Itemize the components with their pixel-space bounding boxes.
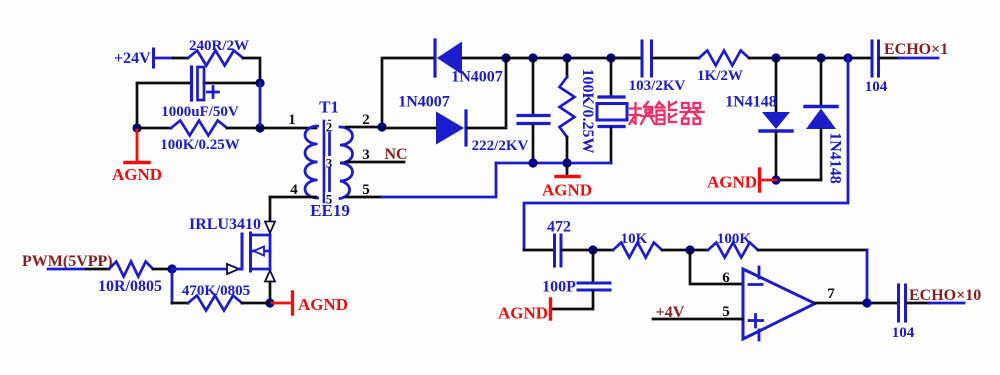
junction dot output bbox=[862, 298, 871, 307]
svg-text:7: 7 bbox=[827, 286, 835, 302]
capacitor 472 plates bbox=[553, 235, 556, 266]
wire drain up to pin4 bbox=[269, 197, 272, 221]
svg-text:AGND: AGND bbox=[542, 181, 592, 200]
svg-text:472: 472 bbox=[547, 219, 571, 236]
wire R1 right to corner bbox=[243, 58, 260, 83]
capacitor 103/2KV bbox=[641, 41, 644, 76]
capacitor 100P stub bbox=[592, 250, 595, 281]
svg-text:AGND: AGND bbox=[707, 173, 757, 192]
ground AGND mosfet bar bbox=[291, 292, 294, 314]
resistor 100K feedback bbox=[708, 243, 758, 258]
wire 100P to ground bbox=[552, 291, 593, 309]
SEC1 bbox=[270, 40, 511, 220]
wire 104 to port black bbox=[907, 302, 929, 305]
svg-text:6: 6 bbox=[722, 270, 730, 286]
capacitor 104 (echo10) plates bbox=[897, 285, 900, 321]
svg-text:1K/2W: 1K/2W bbox=[697, 68, 743, 84]
ground AGND 100P bar bbox=[549, 299, 552, 319]
diode D3 1N4148 (pointing down) bbox=[762, 112, 790, 129]
junction dot diode rail bbox=[771, 175, 780, 184]
junction dot left on row 128 bbox=[132, 123, 141, 132]
svg-text:4: 4 bbox=[290, 182, 298, 198]
capacitor 1000uF/50V (polarized) bbox=[190, 67, 193, 100]
diode D3 stub bottom bbox=[775, 132, 778, 180]
svg-text:2: 2 bbox=[326, 120, 333, 135]
wire 103 to 1K bbox=[653, 57, 699, 60]
svg-text:240R/2W: 240R/2W bbox=[189, 38, 249, 54]
op-amp minus sign bbox=[749, 283, 762, 286]
ground AGND top-left stem bbox=[136, 130, 139, 161]
resistor 100K/0.25W vertical bbox=[560, 77, 575, 137]
port +24V bar bbox=[152, 49, 155, 67]
capacitor 104 (echo1) plates bbox=[871, 41, 874, 76]
svg-text:5: 5 bbox=[362, 182, 370, 198]
wire 10K to junction bbox=[662, 249, 708, 252]
svg-text:103/2KV: 103/2KV bbox=[629, 78, 686, 94]
wire pin5 blue route to ground rail bbox=[382, 163, 496, 197]
svg-text:3: 3 bbox=[362, 147, 370, 163]
ground AGND diode bar bbox=[758, 169, 761, 191]
svg-text:ECHO×1: ECHO×1 bbox=[884, 41, 948, 58]
svg-text:104: 104 bbox=[892, 325, 915, 341]
transistor Q1 drain stub bbox=[251, 234, 271, 237]
wire pin2 bbox=[346, 126, 382, 129]
svg-text:100K/0.25W: 100K/0.25W bbox=[160, 137, 240, 153]
wire 10R to gate node bbox=[153, 268, 172, 271]
wire +24V to R1 (blue part) bbox=[155, 57, 173, 60]
diode D1 1N4007 (cathode left) bbox=[433, 40, 436, 76]
transistor Q1 channel bar bbox=[249, 233, 252, 271]
gate input arrow (hollow) bbox=[227, 264, 239, 274]
wire 1K to echo node bbox=[749, 57, 870, 60]
junction dot echo node bbox=[843, 53, 852, 62]
svg-text:ECHO×10: ECHO×10 bbox=[909, 287, 981, 304]
char huan bbox=[630, 103, 642, 124]
svg-text:EE19: EE19 bbox=[310, 201, 350, 220]
svg-text:1000uF/50V: 1000uF/50V bbox=[161, 104, 239, 120]
wire vertical from corner to row 128 bbox=[259, 83, 262, 128]
svg-text:100K: 100K bbox=[717, 231, 752, 247]
diode D4 1N4148 (pointing up) bbox=[805, 105, 837, 108]
junction dot pin2 node bbox=[377, 122, 386, 131]
wire cap row right bbox=[204, 82, 258, 85]
char qi bbox=[681, 103, 704, 124]
transformer secondary winding bbox=[340, 127, 353, 199]
capacitor 222/2KV stub top bbox=[532, 58, 535, 114]
svg-text:5: 5 bbox=[722, 304, 730, 320]
port PWM underline blue bbox=[48, 268, 86, 271]
char neng bbox=[656, 102, 665, 124]
ground AGND mid bar bbox=[556, 175, 579, 178]
wire gate node down (blue) bbox=[171, 269, 174, 303]
wire 472 to junction bbox=[562, 249, 613, 252]
wire top row from corner bbox=[382, 58, 433, 127]
svg-text:222/2KV: 222/2KV bbox=[472, 138, 529, 154]
diode D3 1N4148 stub top bbox=[775, 58, 778, 111]
wire 100K to feedback corner bbox=[758, 249, 867, 252]
SEC4 bbox=[22, 197, 348, 314]
svg-text:AGND: AGND bbox=[112, 165, 162, 184]
svg-text:1: 1 bbox=[288, 112, 296, 128]
capacitor 222/2KV stub bottom bbox=[532, 125, 535, 163]
transformer core bbox=[323, 121, 326, 202]
transducer stub top bbox=[610, 58, 613, 95]
ground AGND diode red segment bbox=[761, 179, 776, 182]
wire left vertical bbox=[136, 83, 139, 128]
junction dot right on row 128 bbox=[255, 123, 264, 132]
ground AGND mid stem bbox=[566, 163, 569, 175]
wire +24V to R1 (black part) bbox=[173, 57, 188, 60]
wire pin3 bbox=[346, 161, 404, 164]
junction dot rail 222 bbox=[528, 158, 537, 167]
svg-text:+24V: +24V bbox=[114, 50, 151, 67]
transistor Q1 right bar bbox=[269, 235, 272, 269]
svg-text:T1: T1 bbox=[319, 98, 339, 117]
junction dot diode node top bbox=[501, 53, 510, 62]
resistor 10R/0805 bbox=[109, 262, 153, 277]
wire pin4 bbox=[270, 196, 316, 199]
svg-text:10R/0805: 10R/0805 bbox=[98, 278, 162, 295]
ground AGND top-left bar bbox=[125, 161, 149, 164]
junction dot right of C1 bbox=[255, 78, 264, 87]
wire D2 cathode up to node bbox=[467, 58, 506, 128]
diode D4 stub bottom bbox=[820, 129, 823, 180]
wire PWM to 10R bbox=[86, 268, 109, 271]
transducer crystal symbol bbox=[599, 95, 624, 98]
junction dot d4 bbox=[816, 53, 825, 62]
label 换能器 (transducer) hand strokes bbox=[630, 102, 704, 124]
junction dot 100K bbox=[562, 53, 571, 62]
resistor R 100K/0.25W bbox=[171, 121, 227, 136]
resistor 10K bbox=[613, 243, 662, 258]
junction dot inverting node bbox=[685, 245, 694, 254]
wire feedback vertical (blue) bbox=[866, 250, 869, 303]
wire top bus bbox=[506, 57, 640, 60]
svg-text:1N4007: 1N4007 bbox=[451, 69, 503, 86]
wire to 470K bbox=[172, 302, 188, 305]
svg-text:PWM(5VPP): PWM(5VPP) bbox=[22, 253, 113, 270]
junction dot d3 bbox=[771, 53, 780, 62]
capacitor 222/2KV plates bbox=[518, 114, 549, 117]
junction dot 472/100P bbox=[588, 245, 597, 254]
wire cap row left bbox=[137, 82, 190, 85]
transistor Q1 source stub bbox=[251, 268, 271, 271]
wire diode bottom rail bbox=[776, 179, 821, 182]
junction dot gate node bbox=[167, 264, 176, 273]
resistor 100K/0.25W vertical stub top bbox=[566, 58, 569, 77]
transformer primary winding bbox=[305, 126, 318, 198]
wire 104 to port black bbox=[880, 57, 899, 60]
svg-text:1N4007: 1N4007 bbox=[398, 94, 450, 111]
svg-text:NC: NC bbox=[384, 146, 407, 163]
SEC2 bbox=[472, 41, 949, 250]
ground AGND mosfet red segment bbox=[272, 302, 291, 305]
svg-text:100K/0.25W: 100K/0.25W bbox=[579, 69, 596, 154]
wire output bbox=[815, 302, 896, 305]
junction dot transducer bbox=[606, 53, 615, 62]
wire D1 to node bbox=[462, 57, 506, 60]
svg-text:AGND: AGND bbox=[298, 295, 348, 314]
wire bus to 103 bbox=[611, 57, 640, 60]
source arrow (hollow, pointing up) bbox=[265, 271, 275, 282]
wire inverting input bbox=[690, 250, 743, 284]
transducer stub bottom bbox=[610, 128, 613, 163]
diode D4 1N4148 stub top bbox=[820, 58, 823, 105]
wire 470K to source node bbox=[242, 302, 270, 305]
transistor Q1 body stub with arrow bbox=[251, 250, 271, 253]
op-amp top tick bbox=[758, 267, 761, 278]
port ECHO10 underline blue bbox=[929, 302, 964, 305]
SEC3 bbox=[498, 219, 981, 342]
op-amp U1 triangle bbox=[743, 269, 815, 339]
svg-text:1N4148: 1N4148 bbox=[827, 132, 844, 184]
ground rail under transducer (blue) bbox=[496, 162, 611, 165]
wire row128 right stub bbox=[227, 127, 260, 130]
svg-text:2: 2 bbox=[362, 112, 370, 128]
wire pin2 to D2 bbox=[382, 127, 436, 130]
op-amp bottom tick bbox=[758, 330, 761, 340]
wire +4V to pin5 bbox=[653, 318, 743, 321]
svg-text:100P: 100P bbox=[542, 279, 576, 296]
svg-text:104: 104 bbox=[865, 79, 888, 95]
resistor 470K/0805 bbox=[188, 296, 242, 311]
port ECHO1 underline blue bbox=[899, 57, 938, 60]
wire row128 left stub bbox=[137, 127, 171, 130]
resistor 100K/0.25W vertical stub bottom bbox=[566, 137, 569, 163]
svg-text:AGND: AGND bbox=[498, 304, 548, 323]
transistor Q1 gate bar bbox=[241, 234, 244, 269]
op-amp plus sign bbox=[749, 315, 763, 328]
junction dot rail 100K bbox=[562, 158, 571, 167]
wire arrow to gate bbox=[239, 268, 242, 271]
diode D2 1N4007 (cathode right) bbox=[436, 112, 464, 145]
svg-text:3: 3 bbox=[326, 156, 333, 171]
core pin digit 5 bbox=[325, 192, 333, 203]
svg-text:10K: 10K bbox=[621, 231, 648, 247]
wire into 472 bbox=[524, 249, 553, 252]
wire pin1 bbox=[260, 127, 316, 130]
wire gate node to arrow (blue) bbox=[172, 268, 227, 271]
resistor R 240R/2W bbox=[188, 51, 243, 66]
svg-text:1N4148: 1N4148 bbox=[725, 94, 777, 111]
drain arrow (hollow, pointing down) bbox=[265, 222, 275, 234]
net route echo1 to amp (blue) bbox=[524, 58, 848, 250]
junction dot 222 bbox=[528, 53, 537, 62]
wire pin5 black part bbox=[346, 196, 382, 199]
capacitor 100P plates bbox=[578, 282, 610, 285]
core pin digit 3 bbox=[325, 156, 333, 167]
wire source down to 470K row bbox=[269, 282, 272, 303]
svg-text:IRLU3410: IRLU3410 bbox=[189, 216, 261, 233]
svg-text:470K/0805: 470K/0805 bbox=[182, 283, 250, 299]
junction dot source/470K bbox=[265, 298, 274, 307]
resistor 1K/2W bbox=[699, 51, 749, 66]
core pin digit 2 bbox=[325, 121, 333, 132]
